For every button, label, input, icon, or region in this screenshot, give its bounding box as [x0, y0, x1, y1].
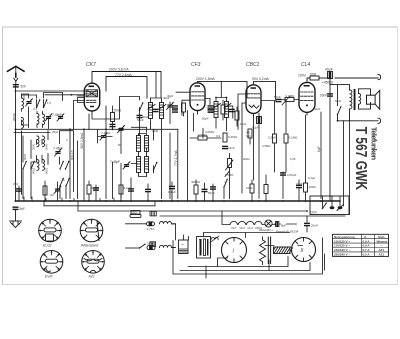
trimmer IF1: [167, 102, 174, 109]
svg-text:0,75A: 0,75A: [147, 242, 155, 246]
capacitor 0,05uF: [280, 172, 297, 199]
wire osc coil links: [131, 127, 153, 176]
svg-text:Bestell-Nr 65234: Bestell-Nr 65234: [276, 230, 299, 234]
tube CF3: [190, 62, 205, 114]
resistor 200 bottom: [87, 181, 100, 201]
svg-text:5nF: 5nF: [21, 85, 27, 89]
capacitor 40uF electrolytic: [322, 67, 334, 84]
oscillator coil block 2b: [145, 157, 149, 173]
svg-text:30nF: 30nF: [314, 107, 321, 111]
svg-text:220V: 220V: [310, 211, 318, 215]
svg-text:6: 6: [63, 178, 65, 182]
svg-text:0,5 A: 0,5 A: [363, 253, 371, 257]
svg-text:2000: 2000: [45, 143, 49, 150]
resistor 0,2M vertical: [223, 133, 238, 142]
resistor 0,1M v2: [284, 134, 298, 172]
resistor 0,1: [119, 185, 131, 201]
mains plug contact 2: [150, 242, 156, 247]
page border: [3, 27, 398, 285]
fuse F1: [147, 222, 155, 231]
resistor 50 ohm output: [310, 72, 330, 80]
coil L5: [43, 136, 45, 147]
svg-text:4Ω: 4Ω: [50, 193, 54, 197]
speaker frame: [359, 89, 371, 109]
trimmer osc 2: [118, 126, 125, 133]
capacitor 6uF electrolytic heater: [276, 222, 287, 228]
trimmer C2b: [57, 114, 64, 121]
wire padder links: [98, 130, 113, 143]
EBC1 wires: [238, 94, 254, 193]
wire bus drop stubs: [44, 201, 155, 211]
svg-text:2000: 2000: [152, 129, 159, 133]
wire heater chain links: [222, 211, 297, 225]
coil L4: [37, 136, 39, 147]
socket EVIII base: [40, 250, 63, 278]
svg-text:Sich.: Sich.: [378, 235, 385, 239]
capacitor at 112: [93, 185, 99, 201]
resistor 15ohm heater: [130, 211, 141, 218]
svg-text:CL4: CL4: [301, 62, 310, 68]
svg-text:2000: 2000: [32, 143, 36, 150]
svg-text:CF3: CF3: [191, 62, 201, 68]
trimmer osc 1: [123, 162, 130, 169]
wire grid feed y95: [45, 94, 85, 96]
wire CL4 anode 190V: [307, 78, 310, 82]
capacitor 20nF CL4: [296, 180, 302, 201]
svg-text:CL4: CL4: [248, 226, 254, 230]
ballast hatched bar: [274, 247, 293, 254]
svg-text:150/160 V ~: 150/160 V ~: [334, 248, 351, 252]
switch S2c: [59, 161, 64, 170]
node smudge labels right: [225, 99, 342, 180]
trimmer C1: [26, 99, 33, 106]
svg-text:220/240 V ~: 220/240 V ~: [334, 253, 351, 257]
svg-text:3: 3: [66, 138, 68, 142]
switch selector: [322, 203, 327, 210]
wire heater bus 1: [44, 205, 155, 207]
IF transformer 2: [208, 97, 235, 123]
tube EBC1: [246, 62, 261, 116]
heater loops CK7 CF3 CL4: [230, 221, 263, 229]
wire chassis bus: [16, 200, 341, 202]
fuse selector 1: [330, 206, 335, 209]
svg-text:Wiamot: Wiamot: [377, 239, 388, 243]
resistor 150ohm CL4 cathode: [304, 115, 317, 201]
svg-text:60V 2,5mA: 60V 2,5mA: [80, 132, 84, 149]
svg-text:REGLER +: REGLER +: [259, 228, 273, 232]
trimmer C4 bottom: [54, 186, 61, 193]
motor circle I: [222, 238, 247, 263]
svg-text:AZ1: AZ1: [379, 253, 385, 257]
svg-text:–: –: [380, 244, 382, 248]
svg-text:600: 600: [22, 95, 26, 100]
coil with arrow small: [210, 236, 219, 243]
wire antenna down lead: [15, 86, 17, 201]
resistor 200 ohm screen: [111, 106, 122, 126]
resistor bottom front: [43, 181, 47, 201]
socket AZ1 base: [82, 250, 105, 278]
wire CK7 cathode 60V: [74, 96, 85, 199]
wire 77V line: [177, 129, 179, 198]
svg-text:0,2: 0,2: [216, 134, 221, 138]
svg-text:6μF: 6μF: [317, 146, 321, 152]
svg-text:200pF: 200pF: [12, 113, 16, 121]
wire screen line 77V: [106, 77, 147, 99]
svg-text:0,9 A: 0,9 A: [363, 244, 371, 248]
svg-text:0,1μF: 0,1μF: [124, 186, 132, 190]
svg-text:0,2μF: 0,2μF: [308, 176, 315, 180]
capacitor 600pF antenna series: [13, 84, 26, 89]
IF2 wires: [205, 82, 233, 131]
switch pot: [223, 179, 228, 188]
ground: [10, 210, 22, 227]
wire feedback line: [337, 85, 339, 106]
resistor zigzag dropper: [260, 237, 266, 265]
wire stub row on chassis bus: [24, 197, 114, 201]
svg-text:4,0MΩ: 4,0MΩ: [205, 130, 215, 134]
wire antenna to grid top: [16, 90, 85, 92]
svg-text:AZ1: AZ1: [379, 248, 385, 252]
trimmer padder osc: [100, 133, 107, 140]
terminal curl bottom: [378, 118, 381, 123]
svg-text:0002: 0002: [32, 167, 36, 174]
svg-text:40μF: 40μF: [325, 67, 333, 71]
svg-text:AZ1: AZ1: [88, 275, 95, 279]
wires coupling to CL4: [261, 100, 299, 135]
svg-text:77V 2,7mA: 77V 2,7mA: [174, 149, 178, 166]
wire mains lead 1: [126, 223, 147, 225]
svg-text:50pF: 50pF: [202, 117, 209, 121]
CF3 grid/cathode wires: [176, 92, 193, 201]
barretter core bars: [268, 237, 270, 264]
mains plug contact 1: [150, 211, 156, 216]
switch S1b: [43, 99, 48, 108]
lamp dial: [259, 220, 273, 232]
switch S1a: [36, 99, 41, 108]
svg-text:II: II: [301, 248, 304, 254]
resistor 4000 ohm: [191, 180, 201, 201]
capacitor 50pF osc: [137, 115, 150, 135]
svg-text:0,2MΩ: 0,2MΩ: [228, 135, 238, 139]
motor circle II: [292, 238, 316, 262]
switch S2b: [30, 161, 35, 170]
wire transformer links: [172, 224, 200, 248]
wire power bus 3: [160, 215, 345, 217]
svg-text:0,75A: 0,75A: [147, 227, 155, 231]
resistor 1M EBC1 grid: [235, 107, 239, 126]
svg-text:77V 2,6mA: 77V 2,6mA: [115, 73, 133, 77]
svg-text:0,1MΩ: 0,1MΩ: [289, 136, 299, 140]
svg-text:50Ω: 50Ω: [310, 72, 317, 76]
resistor 0,2M IF: [221, 100, 225, 120]
svg-text:200Ω: 200Ω: [92, 186, 100, 190]
socket Widerstand: [80, 219, 103, 247]
resistor 1M bottom: [246, 180, 254, 201]
capacitor IF2 input: [208, 105, 214, 113]
wire to output terminal top: [335, 77, 378, 79]
coil L1b: [22, 118, 24, 129]
node smudge labels front end: [22, 94, 174, 197]
svg-text:7-45pF: 7-45pF: [110, 160, 120, 164]
transformer secondary: [359, 94, 361, 105]
capacitor under 200ohm: [110, 124, 116, 130]
speaker voice coil box: [367, 95, 376, 104]
capacitor 50nF det: [208, 184, 216, 201]
transformer box ~: [179, 240, 189, 254]
wire osc section verticals: [89, 106, 121, 199]
svg-text:0001: 0001: [23, 153, 27, 160]
coil L1 antenna: [22, 98, 24, 109]
svg-text:90V 0,2mA: 90V 0,2mA: [252, 77, 270, 81]
svg-text:0,9 A: 0,9 A: [363, 239, 371, 243]
resistor 0,1M grid CL4 horizontal: [282, 94, 295, 105]
resistor bottom 2: [264, 175, 268, 201]
wire power section loops: [173, 233, 325, 279]
wire anode to transformer: [330, 78, 350, 90]
wire vert 77: [77, 141, 79, 199]
svg-text:~: ~: [181, 242, 184, 247]
capacitor 20nF mains: [304, 216, 318, 232]
svg-text:40μF: 40μF: [252, 126, 259, 130]
svg-text:1MΩ: 1MΩ: [246, 186, 253, 190]
capacitor IF1 input: [172, 105, 178, 113]
switch mains: [139, 244, 146, 249]
switch S2d: [65, 161, 70, 170]
wire switch stubs: [60, 186, 66, 199]
resistor 1M under EBC1: [248, 129, 252, 144]
svg-text:4,5MΩ: 4,5MΩ: [262, 144, 270, 148]
wire L1 loop: [22, 94, 29, 195]
svg-text:20nF: 20nF: [311, 223, 318, 227]
coil L3: [43, 114, 45, 125]
wire CK7 anode to screen bus: [92, 72, 161, 98]
svg-text:15Ω: 15Ω: [132, 211, 137, 215]
svg-text:200Ω: 200Ω: [114, 109, 122, 113]
svg-text:50pF: 50pF: [137, 118, 144, 122]
switch tone: [337, 106, 342, 115]
node misc labels: [101, 96, 303, 234]
svg-text:1,5: 1,5: [47, 101, 51, 105]
svg-text:7-45pF: 7-45pF: [101, 131, 111, 135]
svg-text:EVIII: EVIII: [45, 275, 52, 279]
antenna: [8, 66, 25, 84]
svg-text:5nF: 5nF: [20, 207, 26, 211]
svg-text:0002: 0002: [45, 167, 49, 174]
svg-text:EU32: EU32: [43, 243, 52, 247]
svg-text:250: 250: [13, 182, 18, 186]
IF transformer 1: [148, 98, 166, 124]
coil L6: [37, 160, 39, 171]
wire row1 bottom link: [14, 131, 50, 133]
output transformer + speaker: [330, 78, 380, 121]
wire frontend top links: [22, 93, 63, 129]
svg-text:CBC1: CBC1: [246, 62, 260, 68]
wire box stubs: [323, 196, 341, 209]
tube CK7: [84, 62, 99, 114]
svg-text:25pF: 25pF: [52, 130, 59, 134]
svg-text:0,5MΩ: 0,5MΩ: [225, 173, 233, 177]
svg-text:50nF: 50nF: [335, 99, 342, 103]
volume pot: [225, 154, 233, 199]
svg-text:200V 3,8 mA: 200V 3,8 mA: [109, 68, 129, 72]
svg-text:0,1: 0,1: [33, 107, 37, 111]
wire mains lead 2: [126, 247, 140, 249]
svg-text:200V 1,5mA: 200V 1,5mA: [196, 77, 215, 81]
box mains selector: [310, 196, 349, 215]
svg-text:Netzspannung: Netzspannung: [334, 235, 355, 239]
coil mains choke 2: [160, 245, 176, 247]
svg-text:60V 2,5: 60V 2,5: [70, 150, 74, 160]
wire long down right: [344, 121, 350, 215]
svg-text:20kΩ: 20kΩ: [243, 157, 250, 161]
svg-text:15nF: 15nF: [228, 146, 235, 150]
fuse F2: [147, 242, 155, 250]
fuse selector 2: [337, 205, 344, 211]
svg-text:50nF: 50nF: [208, 191, 215, 195]
wire heater bus 2: [78, 210, 306, 212]
capacitor 50nF tone: [320, 93, 333, 97]
switch osc band: [153, 162, 158, 171]
svg-text:7-45pF: 7-45pF: [53, 147, 63, 151]
svg-text:50: 50: [118, 143, 122, 147]
oscillator coil block 2a: [137, 157, 141, 173]
svg-text:CF3: CF3: [240, 226, 246, 230]
coil mains choke 1: [160, 222, 176, 224]
resistor 0,3M CF3 grid: [182, 103, 186, 116]
wire 6uF line: [320, 112, 322, 199]
coil L2: [37, 114, 39, 125]
transformer primary: [350, 90, 352, 109]
trimmer C3 7-45pF: [55, 149, 62, 156]
svg-text:MΩ: MΩ: [246, 134, 251, 138]
capacitor 15nF: [222, 146, 235, 150]
svg-text:0,2MΩ: 0,2MΩ: [268, 136, 278, 140]
switch osc: [139, 102, 144, 111]
tone switch right: [329, 78, 331, 201]
svg-text:50nF: 50nF: [274, 95, 281, 99]
wire CF3 anode: [198, 82, 248, 98]
oscillator coil block 1b: [145, 136, 149, 152]
svg-text:I: I: [233, 249, 235, 255]
svg-text:CK7: CK7: [231, 226, 237, 230]
rectifier cell box: [197, 237, 211, 259]
grid cap 50nF to CL4: [274, 95, 282, 102]
IF trafo 1 caps feed: [151, 72, 171, 199]
switch S2a: [22, 161, 27, 170]
svg-text:190V: 190V: [298, 73, 307, 77]
wire mid bus 129: [16, 128, 178, 130]
coil L7: [43, 160, 45, 171]
grid stopper box CK7: [78, 98, 85, 103]
capacitor extra det: [145, 184, 151, 201]
svg-text:T 567 GWK: T 567 GWK: [352, 127, 369, 191]
svg-text:A: A: [364, 235, 367, 239]
svg-text:8μF: 8μF: [281, 224, 286, 228]
svg-text:0,25: 0,25: [290, 157, 296, 161]
resistor 0,2M: [268, 134, 278, 172]
svg-text:50nF: 50nF: [320, 94, 327, 98]
svg-text:Widerstand: Widerstand: [81, 243, 98, 247]
svg-text:0,7 A: 0,7 A: [363, 248, 371, 252]
trimmer C2 7-45pF: [45, 114, 52, 121]
svg-text:15nF: 15nF: [240, 122, 247, 126]
capacitor extra det2: [202, 183, 208, 201]
wire vert 70: [69, 129, 71, 198]
wire to bottom terminal: [338, 115, 379, 121]
transformer core: [354, 89, 356, 110]
svg-text:Telefunken: Telefunken: [369, 127, 378, 160]
svg-text:110/125 V =: 110/125 V =: [334, 239, 350, 243]
wire frontend mid links: [23, 131, 74, 199]
wire EBC1 anode: [254, 81, 276, 99]
capacitor 250pF bottom left: [13, 182, 22, 201]
svg-text:40pF: 40pF: [167, 94, 174, 98]
speaker cone: [375, 90, 380, 109]
switch S3a: [59, 178, 64, 187]
wire det links: [190, 128, 221, 138]
svg-text:+450kΩ: +450kΩ: [322, 80, 334, 84]
tube CL4: [299, 62, 315, 115]
oscillator coil block 1a: [137, 136, 141, 152]
wire grid return loop: [92, 97, 140, 120]
capacitor pad: [128, 178, 134, 201]
svg-text:CK7: CK7: [86, 62, 96, 68]
capacitor 5nF ground: [13, 207, 26, 211]
switch S3b: [65, 178, 70, 187]
socket CK7 base: [39, 219, 62, 247]
capacitor 40uF cathode EBC1: [252, 113, 262, 198]
terminal curl top: [378, 75, 381, 80]
svg-text:110/125 V ~: 110/125 V ~: [334, 244, 350, 248]
capacitor 0,1uF under 77V: [168, 182, 176, 201]
svg-text:150Ω: 150Ω: [309, 185, 317, 189]
resistor 0,5M horizontal: [198, 133, 208, 140]
svg-text:0,05μF: 0,05μF: [287, 173, 297, 177]
